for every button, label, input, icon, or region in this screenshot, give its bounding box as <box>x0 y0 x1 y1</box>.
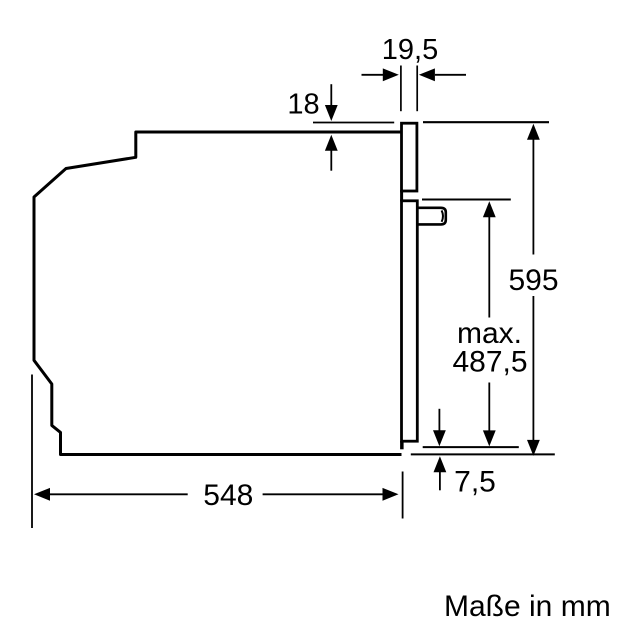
dimension 548 left arrow <box>34 488 50 501</box>
dimension 595 bottom arrow <box>532 296 534 441</box>
svg-text:Maße in mm: Maße in mm <box>444 590 611 623</box>
svg-text:19,5: 19,5 <box>382 34 438 66</box>
dimension 19,5 extension line right <box>416 66 418 112</box>
front frame lower section <box>402 201 418 441</box>
dimension 19,5 extension line left <box>400 66 402 112</box>
dimension 19,5 right arrow <box>435 74 466 76</box>
svg-text:18: 18 <box>287 89 319 121</box>
svg-text:487,5: 487,5 <box>452 346 527 379</box>
front frame upper section <box>402 123 417 191</box>
dimension 19,5 left arrow <box>362 74 384 76</box>
dimension 548 extension line left <box>31 375 33 529</box>
dimension 548 right arrow <box>263 493 384 495</box>
dimension 595 top arrow <box>527 124 540 140</box>
svg-text:595: 595 <box>508 264 558 297</box>
svg-text:7,5: 7,5 <box>454 466 496 499</box>
dimension 18 down arrow <box>330 84 332 106</box>
dimension 7,5 up arrow <box>434 456 447 472</box>
frame-bottom extension line <box>423 446 519 448</box>
dimension 487,5 bottom arrow <box>488 383 490 432</box>
frame left connector tab <box>400 190 403 202</box>
dimension 18 up arrow <box>325 135 338 151</box>
handle-top extension line <box>422 199 511 201</box>
dimension 548 extension line right <box>402 472 404 519</box>
dimension 18 extension line <box>313 122 394 124</box>
frame bottom tab <box>400 441 404 449</box>
frame-top extension line right <box>423 121 549 123</box>
body-bottom extension line right <box>411 453 555 455</box>
door handle <box>417 208 446 225</box>
dimension 487,5 top arrow <box>483 201 496 217</box>
handle end-cap arc <box>442 210 443 221</box>
oven body outline <box>34 132 402 455</box>
dimension 7,5 down arrow <box>438 409 440 432</box>
svg-text:548: 548 <box>203 479 253 512</box>
